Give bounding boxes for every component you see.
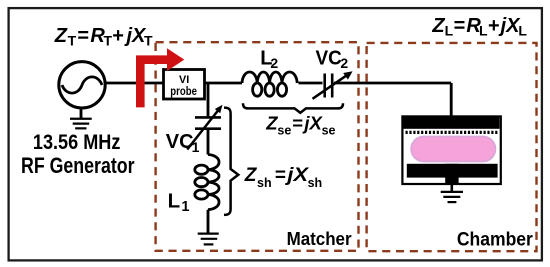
svg-text:Matcher: Matcher: [287, 229, 352, 249]
svg-text:Z: Z: [431, 15, 445, 37]
svg-text:=: =: [275, 165, 286, 186]
svg-text:T: T: [104, 32, 113, 48]
svg-text:jX: jX: [302, 112, 323, 133]
svg-text:13.56 MHz: 13.56 MHz: [33, 130, 121, 154]
svg-text:=: =: [292, 112, 303, 133]
svg-text:=: =: [77, 25, 89, 47]
svg-text:L: L: [445, 22, 454, 38]
svg-text:1: 1: [181, 199, 189, 215]
svg-text:Chamber: Chamber: [457, 228, 533, 250]
svg-text:L: L: [479, 22, 488, 38]
svg-text:jX: jX: [284, 165, 310, 186]
svg-text:VC: VC: [166, 131, 194, 153]
svg-text:+: +: [488, 15, 500, 37]
svg-text:L: L: [168, 189, 181, 212]
svg-text:RF Generator: RF Generator: [21, 153, 135, 178]
svg-text:T: T: [68, 32, 77, 48]
svg-text:+: +: [112, 25, 124, 47]
svg-text:sh: sh: [308, 176, 323, 190]
svg-text:2: 2: [270, 55, 278, 71]
svg-text:se: se: [277, 124, 291, 138]
svg-text:2: 2: [340, 55, 348, 71]
svg-text:VC: VC: [316, 48, 342, 70]
svg-text:Z: Z: [54, 25, 68, 47]
svg-text:sh: sh: [257, 176, 272, 190]
svg-text:Z: Z: [244, 165, 258, 186]
svg-text:1: 1: [192, 139, 200, 155]
svg-text:L: L: [518, 22, 527, 38]
svg-text:Z: Z: [265, 112, 278, 133]
svg-text:=: =: [454, 15, 466, 37]
svg-text:se: se: [322, 124, 336, 138]
svg-text:T: T: [144, 32, 153, 48]
svg-text:probe: probe: [170, 84, 197, 98]
